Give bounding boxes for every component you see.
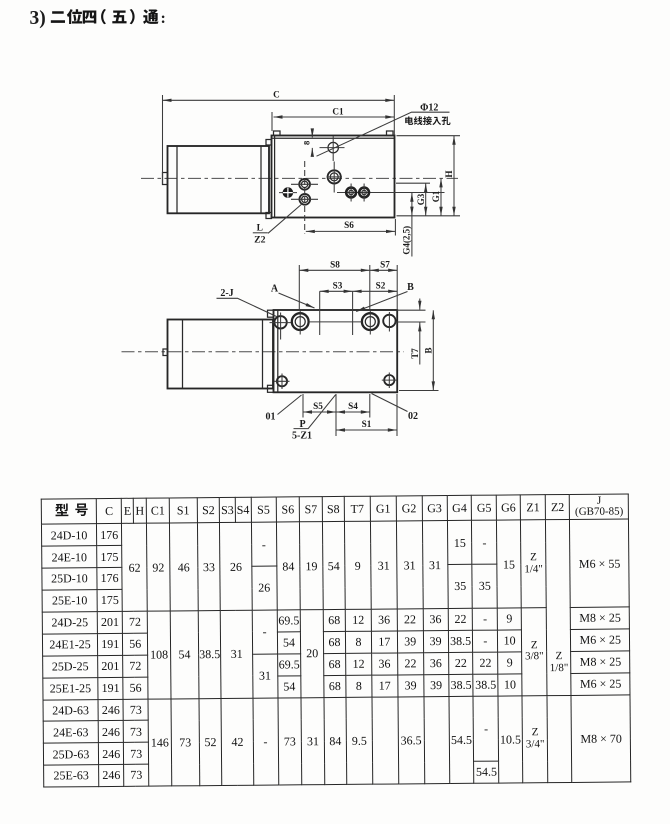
svg-text:H: H bbox=[444, 170, 454, 177]
solenoid coil body (top view) bbox=[163, 146, 270, 213]
svg-text:S6: S6 bbox=[344, 220, 354, 230]
dimension S5 bbox=[303, 401, 336, 412]
svg-text:S8: S8 bbox=[330, 260, 340, 270]
wire: main centerline top view bbox=[141, 177, 458, 179]
technical drawings bbox=[0, 0, 670, 470]
dimension G1 bbox=[431, 178, 441, 215]
wire: line between ports A,B bbox=[309, 321, 362, 323]
mounting hole top-right bbox=[383, 312, 395, 332]
svg-text:2-J: 2-J bbox=[220, 288, 233, 299]
svg-text:B: B bbox=[423, 347, 433, 353]
svg-text:S5: S5 bbox=[313, 401, 323, 411]
threaded hole pair right bbox=[337, 184, 445, 202]
svg-text:C1: C1 bbox=[332, 106, 344, 116]
dimension C bbox=[163, 90, 395, 184]
svg-text:S7: S7 bbox=[380, 260, 390, 270]
dimension S8 bbox=[299, 260, 370, 312]
dimension T7 bbox=[396, 299, 426, 365]
svg-text:Φ12: Φ12 bbox=[420, 102, 438, 113]
mounting hole bottom-right bbox=[382, 373, 397, 389]
plugged hole (solid) bbox=[279, 187, 297, 198]
svg-text:G4(2,5): G4(2,5) bbox=[401, 226, 411, 255]
mounting hole bottom-left bbox=[275, 374, 290, 390]
label 02 bbox=[372, 394, 419, 423]
svg-text:S2: S2 bbox=[376, 281, 386, 291]
valve body (top view) bbox=[272, 136, 395, 218]
port hole A (double) bbox=[292, 311, 309, 335]
svg-text:A: A bbox=[271, 284, 279, 295]
label Phi12 cable hole bbox=[317, 102, 451, 156]
mounting tabs (top view) bbox=[266, 131, 393, 219]
page title 3) er wei si (wu) tong bbox=[0, 0, 220, 40]
bottom extension lines bbox=[303, 394, 397, 436]
mounting tabs (bottom view) bbox=[268, 310, 274, 392]
svg-text:G1: G1 bbox=[431, 190, 441, 202]
wire: main centerline bottom view bbox=[122, 351, 405, 353]
dimension C1 bbox=[272, 106, 394, 131]
dimension S1 bbox=[336, 419, 397, 430]
svg-text:B: B bbox=[407, 282, 414, 293]
dimension S3 bbox=[320, 281, 353, 292]
port position lines A/B bbox=[320, 291, 353, 335]
svg-text:Z2: Z2 bbox=[254, 235, 266, 246]
stray scan mark left margin bbox=[30, 654, 34, 658]
svg-text:S4: S4 bbox=[348, 401, 358, 411]
label B bbox=[356, 282, 414, 312]
mounting hole top-left 2-J bbox=[270, 313, 292, 340]
dimension G3 bbox=[396, 183, 430, 216]
dimension S7 bbox=[370, 260, 397, 311]
svg-text:8: 8 bbox=[301, 141, 311, 145]
dimension G4(2,5) bbox=[401, 193, 412, 257]
svg-text:T7: T7 bbox=[410, 348, 420, 359]
hole pair on mid vertical bbox=[291, 161, 318, 234]
svg-text:01: 01 bbox=[266, 412, 276, 423]
label 01 bbox=[266, 395, 302, 423]
cable entry hole bbox=[320, 136, 345, 161]
svg-text:5-Z1: 5-Z1 bbox=[292, 431, 312, 442]
valve body (bottom view) bbox=[274, 310, 398, 392]
label L / Z2 bbox=[253, 203, 303, 246]
dimension H bbox=[397, 136, 461, 216]
port hole B (double) bbox=[362, 311, 379, 335]
svg-text:S3: S3 bbox=[333, 281, 343, 291]
svg-text:C: C bbox=[273, 90, 280, 100]
dimension B (height) bbox=[399, 310, 439, 390]
svg-text:02: 02 bbox=[408, 411, 418, 422]
label A bbox=[271, 284, 315, 309]
dimension 8 bbox=[301, 131, 312, 155]
svg-text:L: L bbox=[257, 224, 263, 234]
dimension S2 bbox=[353, 281, 398, 292]
solenoid coil body (bottom view) bbox=[163, 320, 273, 389]
dimension S6 bbox=[306, 219, 396, 236]
dimension S4 bbox=[336, 401, 370, 412]
svg-text:G3: G3 bbox=[416, 193, 426, 205]
label P / 5-Z1 bbox=[292, 395, 336, 442]
port hole large (top view) bbox=[327, 162, 343, 193]
label 2-J bbox=[217, 288, 277, 317]
svg-text:S1: S1 bbox=[362, 419, 372, 429]
